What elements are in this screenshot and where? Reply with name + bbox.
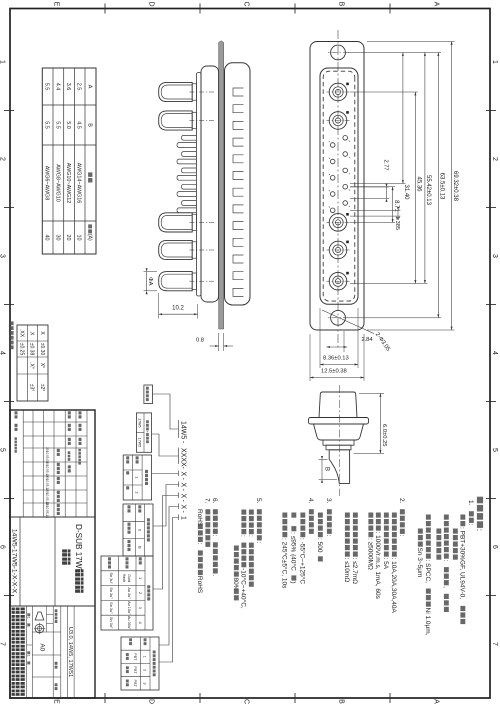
zone ticks and labels bbox=[486, 110, 496, 112]
front view: 10 signal pins bbox=[343, 136, 348, 141]
svg-text:: SPCC,: : SPCC, bbox=[424, 560, 431, 584]
svg-text:±0.30: ±0.30 bbox=[39, 343, 45, 356]
svg-text:1.385: 1.385 bbox=[394, 216, 400, 230]
svg-text:Sn 3u": Sn 3u" bbox=[109, 587, 113, 599]
svg-text:B: B bbox=[324, 467, 330, 471]
cup centerline bbox=[188, 91, 214, 93]
AWG table bbox=[42, 68, 96, 254]
svg-text::: : bbox=[398, 535, 405, 537]
svg-text:2: 2 bbox=[0, 157, 6, 161]
dim 55.42 bbox=[424, 53, 426, 284]
leader X3 to plating table bbox=[153, 496, 179, 590]
front view: connector flange bbox=[310, 42, 364, 331]
signature grid bbox=[86, 410, 88, 517]
detail dim 6.0 bbox=[359, 392, 384, 394]
svg-text:14W5: 14W5 bbox=[180, 421, 187, 439]
side view: 10 signal pins bbox=[182, 135, 197, 140]
cup centerline bbox=[188, 280, 214, 282]
svg-text:X: X bbox=[180, 472, 187, 477]
svg-text:B: B bbox=[338, 2, 345, 7]
front view: horizontal centerline bbox=[337, 30, 339, 348]
svg-text:±3°: ±3° bbox=[29, 384, 35, 392]
svg-text:D: D bbox=[148, 699, 155, 704]
svg-text:2: 2 bbox=[491, 157, 498, 161]
tolerance caption bbox=[10, 321, 14, 325]
side view: 5 solder cup contacts bbox=[192, 84, 196, 100]
svg-text:A: A bbox=[433, 699, 440, 704]
dim 2.84 bbox=[327, 346, 348, 348]
svg-text:5: 5 bbox=[491, 448, 498, 452]
svg-text:6: 6 bbox=[491, 545, 498, 549]
dim 45.36 extension lines bbox=[350, 91, 418, 93]
dim 31.40 bbox=[402, 53, 404, 184]
front view: D insert bbox=[320, 68, 358, 304]
sheet counts bbox=[27, 644, 33, 646]
svg-text:2010.05.14: 2010.05.14 bbox=[45, 502, 49, 518]
AWG table header CJK bbox=[88, 172, 92, 177]
svg-text:: 500: : 500 bbox=[316, 538, 323, 553]
svg-text:AWG6~AWG8: AWG6~AWG8 bbox=[44, 166, 50, 201]
svg-text:4: 4 bbox=[0, 351, 6, 355]
svg-text:±0.38: ±0.38 bbox=[29, 343, 35, 356]
front view: 5 power contacts bbox=[329, 83, 347, 101]
dim 31.40 extension lines bbox=[350, 183, 406, 185]
gender code table bbox=[123, 455, 151, 500]
dim 55.42 extension lines bbox=[350, 282, 428, 284]
svg-text:2: 2 bbox=[143, 669, 147, 671]
svg-text:): ) bbox=[290, 581, 297, 583]
svg-text::: : bbox=[240, 535, 247, 537]
svg-text:1: 1 bbox=[26, 655, 30, 657]
svg-text:Gold: Gold bbox=[127, 574, 131, 582]
svg-text:: ≥5000MΩ: : ≥5000MΩ bbox=[367, 538, 374, 570]
svg-text:B: B bbox=[338, 699, 345, 704]
svg-text:C: C bbox=[243, 1, 250, 6]
projection symbol bbox=[35, 612, 44, 620]
detail view: step ring bbox=[323, 440, 354, 445]
svg-text:3: 3 bbox=[0, 254, 6, 258]
dim 45.36 bbox=[414, 92, 416, 283]
svg-text:5.5: 5.5 bbox=[54, 121, 60, 129]
svg-text:X: X bbox=[180, 494, 187, 499]
dim 10.2 bbox=[158, 293, 160, 319]
svg-text:PBT: PBT bbox=[133, 653, 137, 661]
svg-text:5.0: 5.0 bbox=[65, 121, 71, 129]
side view: rear shell body bbox=[225, 63, 251, 305]
svg-text:RoHS: RoHS bbox=[196, 576, 203, 594]
dim phiA bbox=[144, 271, 158, 273]
leader 2-dia3.05 bbox=[322, 310, 374, 334]
leader XXXX to product table bbox=[152, 434, 179, 456]
svg-text:E: E bbox=[53, 2, 60, 7]
svg-text:Sn 3u": Sn 3u" bbox=[109, 617, 113, 629]
svg-text:AWG8~AWG10: AWG8~AWG10 bbox=[54, 164, 60, 202]
svg-text:+: + bbox=[145, 431, 149, 433]
stage mark small boxes bbox=[47, 614, 54, 616]
svg-text:(A): (A) bbox=[86, 234, 92, 241]
svg-text:3: 3 bbox=[491, 254, 498, 258]
mounting code table bbox=[123, 504, 153, 556]
stage mark headers bbox=[32, 631, 61, 633]
svg-text:4: 4 bbox=[491, 351, 498, 355]
svg-text:10: 10 bbox=[76, 235, 82, 241]
svg-text:.X°: .X° bbox=[29, 362, 35, 369]
svg-text:: ≤2.7mΩ: : ≤2.7mΩ bbox=[351, 558, 358, 585]
svg-text:±2°: ±2° bbox=[39, 384, 45, 392]
svg-text:PBT: PBT bbox=[133, 666, 137, 674]
side view: cavity slots bbox=[233, 88, 244, 96]
svg-text:17W5: 17W5 bbox=[138, 438, 142, 447]
svg-text:3: 3 bbox=[143, 682, 147, 684]
svg-text:40: 40 bbox=[44, 235, 50, 241]
svg-text:E: E bbox=[53, 699, 60, 704]
front view: mounting hole right bbox=[331, 310, 346, 325]
svg-text:AWG14~AWG16: AWG14~AWG16 bbox=[76, 163, 82, 204]
svg-text:0.8: 0.8 bbox=[196, 338, 204, 344]
signature labels bbox=[79, 411, 82, 414]
svg-text:6.: 6. bbox=[211, 498, 218, 504]
svg-text:.XX: .XX bbox=[18, 329, 24, 338]
dim 8.36 bbox=[320, 364, 358, 366]
detail view: flange brim bbox=[309, 418, 369, 425]
svg-text:D-SUB 17W5: D-SUB 17W5 bbox=[74, 524, 83, 574]
svg-text:31.40: 31.40 bbox=[403, 184, 409, 200]
svg-text:X°: X° bbox=[39, 363, 45, 368]
dim 12.5 bbox=[310, 377, 364, 379]
cup centerline bbox=[188, 249, 214, 251]
side view: insulator front lip bbox=[196, 73, 201, 297]
insulator color table bbox=[121, 637, 159, 690]
svg-text:: ≤10mΩ: : ≤10mΩ bbox=[343, 558, 350, 583]
svg-text:2.5: 2.5 bbox=[76, 83, 82, 91]
svg-text:4.5: 4.5 bbox=[76, 121, 82, 129]
svg-text:-10°C~+40°C,: -10°C~+40°C, bbox=[240, 568, 248, 609]
detail view: centerline bbox=[338, 385, 340, 496]
svg-text:5.5: 5.5 bbox=[44, 121, 50, 129]
dim 12.5 extension lines bbox=[363, 334, 365, 381]
svg-text::: : bbox=[255, 541, 262, 543]
title block outline bbox=[10, 410, 95, 698]
svg-text:5: 5 bbox=[0, 448, 6, 452]
leader X1 to tolerance-code table bbox=[152, 473, 179, 475]
svg-text:,: , bbox=[442, 586, 449, 588]
svg-text:1.: 1. bbox=[467, 500, 474, 506]
svg-text:7.: 7. bbox=[204, 498, 211, 504]
svg-text:1: 1 bbox=[491, 60, 498, 64]
dim 8.36 extension lines bbox=[357, 308, 359, 368]
svg-text:: ≤95% (40°C: : ≤95% (40°C bbox=[290, 532, 298, 571]
svg-text:Au 15u": Au 15u" bbox=[127, 601, 131, 615]
svg-text:2.84: 2.84 bbox=[361, 337, 373, 343]
leader 14W5 to shell-code box bbox=[153, 394, 179, 429]
svg-text:Sn 3u": Sn 3u" bbox=[109, 602, 113, 614]
svg-text:Au 3u": Au 3u" bbox=[127, 587, 131, 599]
dim 69.32 bbox=[451, 42, 453, 331]
svg-text:: -55°C~+125°C: : -55°C~+125°C bbox=[299, 538, 307, 584]
svg-text:±0.25: ±0.25 bbox=[18, 343, 24, 356]
dim 8.71 bbox=[392, 187, 394, 223]
leader X4 to color table bbox=[159, 507, 179, 646]
company name bbox=[12, 608, 25, 614]
svg-text:30: 30 bbox=[54, 235, 60, 241]
svg-text:63.5±0.13: 63.5±0.13 bbox=[439, 173, 445, 200]
svg-text:7: 7 bbox=[491, 642, 498, 646]
svg-text:5.: 5. bbox=[255, 498, 262, 504]
side view: mounting flange plate (edge) bbox=[219, 41, 224, 329]
front view: mounting hole left bbox=[331, 45, 346, 60]
svg-text:1: 1 bbox=[26, 617, 30, 619]
svg-text:XXXX: XXXX bbox=[180, 448, 187, 467]
right title section rows bbox=[73, 606, 75, 698]
svg-text:: 5A: : 5A bbox=[382, 558, 389, 570]
tolerance table bbox=[17, 325, 48, 401]
svg-text:Au 30u": Au 30u" bbox=[127, 616, 131, 630]
svg-text:X: X bbox=[180, 505, 187, 510]
svg-text::: : bbox=[325, 535, 332, 537]
svg-text:X: X bbox=[180, 483, 187, 488]
svg-text:flash: flash bbox=[122, 574, 126, 582]
svg-text:: PBT+30%GF, UL94V-0,: : PBT+30%GF, UL94V-0, bbox=[459, 527, 466, 599]
dim 63.5 bbox=[437, 53, 439, 318]
svg-text:7: 7 bbox=[0, 642, 6, 646]
svg-text:12.5±0.38: 12.5±0.38 bbox=[321, 369, 347, 375]
svg-text:.X: .X bbox=[29, 331, 35, 336]
product group table bbox=[136, 413, 151, 452]
svg-text:20: 20 bbox=[65, 235, 71, 241]
svg-text:45.36: 45.36 bbox=[416, 176, 422, 192]
svg-text:: 10A,20A,30A,40A: : 10A,20A,30A,40A bbox=[390, 558, 397, 614]
svg-text:C: C bbox=[243, 699, 250, 704]
dim 0.8 bbox=[223, 333, 225, 351]
bottom-left bold cells bbox=[15, 411, 18, 414]
svg-text:2.: 2. bbox=[398, 498, 405, 504]
svg-text:A: A bbox=[433, 2, 440, 7]
svg-text:A: A bbox=[87, 85, 93, 89]
svg-text:.: . bbox=[211, 574, 218, 576]
detail dim B bbox=[319, 458, 328, 460]
svg-text::: : bbox=[247, 535, 254, 537]
svg-text::: : bbox=[211, 535, 218, 537]
svg-text:8.36±0.13: 8.36±0.13 bbox=[323, 356, 349, 362]
svg-text::: : bbox=[196, 543, 203, 545]
svg-text:1: 1 bbox=[143, 656, 147, 658]
svg-text:2.77: 2.77 bbox=[383, 160, 389, 171]
cup centerline bbox=[188, 221, 214, 223]
front view: insert dashed contour bbox=[323, 71, 355, 301]
svg-text:3.6: 3.6 bbox=[65, 83, 71, 91]
detail view: step ring 2 bbox=[326, 445, 351, 450]
svg-text:69.32±0.38: 69.32±0.38 bbox=[452, 171, 458, 202]
plating code table bbox=[101, 556, 153, 630]
svg-text:10.2: 10.2 bbox=[172, 306, 184, 312]
svg-text:55.42±0.13: 55.42±0.13 bbox=[425, 175, 431, 206]
detail view: solder cup barrel with scoop bbox=[329, 450, 349, 484]
dim 63.5 extension lines bbox=[348, 52, 441, 54]
leader X2 to mounting table bbox=[153, 485, 179, 527]
svg-text:14W5-17W5-1-X-X-X: 14W5-17W5-1-X-X-X bbox=[11, 529, 18, 594]
svg-text:U3.0, 14W5, 17W51: U3.0, 14W5, 17W51 bbox=[67, 627, 73, 677]
svg-text:1: 1 bbox=[0, 60, 6, 64]
svg-text:5.5: 5.5 bbox=[44, 83, 50, 91]
svg-text:A0: A0 bbox=[39, 644, 46, 652]
detail view: bell body bbox=[314, 424, 364, 440]
shell code box bbox=[144, 385, 153, 404]
svg-text:4.: 4. bbox=[307, 498, 314, 504]
svg-text:17W5: 17W5 bbox=[138, 418, 142, 427]
svg-text::: : bbox=[442, 560, 449, 562]
svg-text:: 1000Vr.m.s, 1mA, 60s: : 1000Vr.m.s, 1mA, 60s bbox=[374, 532, 381, 600]
cup centerline bbox=[188, 120, 214, 122]
svg-text:6.0±0.25: 6.0±0.25 bbox=[381, 424, 387, 447]
technical notes bbox=[477, 497, 483, 504]
svg-text:Ni 1.0μm,: Ni 1.0μm, bbox=[424, 608, 431, 636]
leader 1 to color table right bbox=[159, 518, 179, 663]
svg-text:B: B bbox=[87, 123, 93, 127]
svg-text:AWG10~AWG12: AWG10~AWG12 bbox=[65, 163, 71, 204]
svg-text::: : bbox=[475, 529, 484, 531]
svg-text:1: 1 bbox=[180, 516, 187, 520]
dim 8.71 extension lines bbox=[350, 186, 395, 188]
svg-text:ΦA: ΦA bbox=[147, 277, 153, 286]
side view: insulator body bbox=[201, 66, 219, 302]
dim 2.77 bbox=[350, 186, 389, 188]
detail view: contact crown bbox=[319, 392, 357, 418]
token underlines bbox=[178, 420, 180, 438]
svg-text:Sn 3~5μm: Sn 3~5μm bbox=[416, 548, 423, 578]
svg-text:D: D bbox=[148, 1, 155, 6]
dim 1.385 bbox=[350, 209, 400, 211]
svg-text:B: B bbox=[137, 546, 142, 549]
svg-text::: : bbox=[467, 524, 474, 526]
svg-text:PBT: PBT bbox=[133, 680, 137, 688]
svg-text:6: 6 bbox=[0, 545, 6, 549]
svg-text:Sn 3u": Sn 3u" bbox=[109, 573, 113, 585]
svg-text:: 245°C±5°C, 10s: : 245°C±5°C, 10s bbox=[281, 538, 289, 589]
svg-text:3.: 3. bbox=[325, 498, 332, 504]
dim 69.32 extension lines bbox=[367, 41, 455, 43]
svg-text:4.4: 4.4 bbox=[54, 83, 60, 91]
